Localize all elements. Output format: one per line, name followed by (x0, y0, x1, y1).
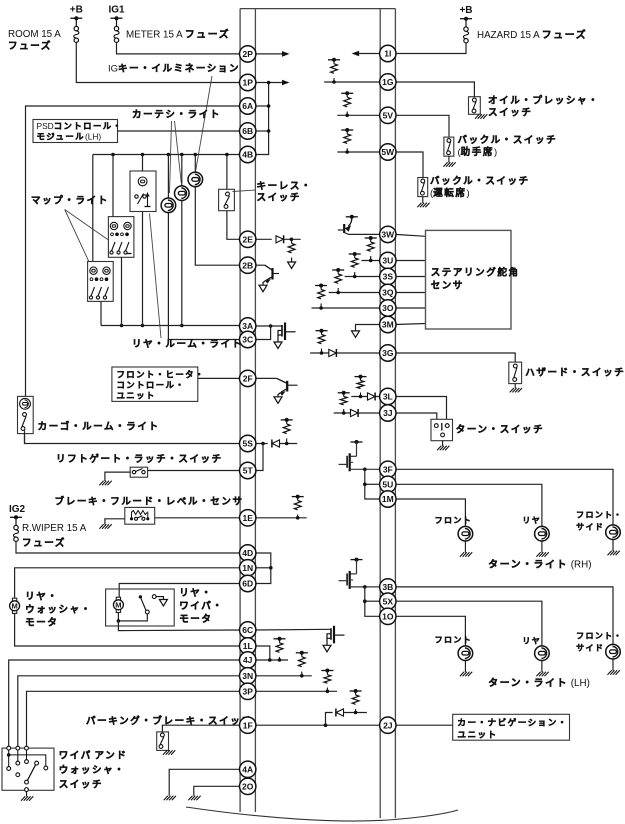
left connector bus C-1 (vertical rails) (240, 9, 255, 812)
svg-text:フロント・: フロント・ (576, 511, 623, 520)
wire: cargo light to pin 5S (24, 431, 26, 444)
turn lamp front RH (458, 526, 473, 541)
wire: pin 3U with resistor R11 (361, 260, 380, 262)
module box: PSD control module (LH) (33, 120, 118, 143)
svg-text:1F: 1F (243, 720, 253, 730)
wire+ground: front lamp RH (464, 541, 466, 553)
wire: washer motor to pin 1L (15, 613, 241, 646)
wire+ground: latch switch left leg (105, 472, 130, 481)
wire: heater unit to pin 2F (198, 377, 240, 379)
wire: pin 3M to page arrow (356, 325, 381, 331)
wire: stub 6A to feed column (255, 105, 268, 107)
wire: pin 1M to front turn lamp RH (395, 499, 465, 526)
leader: rear room light to dome light box (150, 214, 162, 339)
resistor R8 pull-up (331, 64, 338, 73)
svg-text:サイド: サイド (576, 644, 604, 653)
leader: map light to box A (65, 210, 89, 262)
wire: pin 5V to buckle switch (passenger) (395, 115, 449, 137)
svg-text:フューズ: フューズ (8, 40, 52, 52)
svg-text:5U: 5U (382, 480, 393, 490)
resistor R5 pull-up (298, 657, 305, 667)
svg-text:ワイパ・: ワイパ・ (179, 600, 223, 612)
dome light box with switch (130, 171, 156, 212)
svg-text:スイッチ: スイッチ (488, 108, 532, 119)
turn lamp front side LH (606, 644, 621, 659)
module box: steering angle sensor (426, 230, 512, 329)
leader: map light to box B (65, 210, 109, 241)
svg-text:R.WIPER 15 A: R.WIPER 15 A (22, 523, 87, 534)
svg-text:リヤ・: リヤ・ (25, 592, 58, 603)
wire: pin 1I output arrow (359, 53, 380, 55)
transistor Q1 at pin 2B (255, 264, 265, 266)
svg-text:+B: +B (70, 5, 83, 16)
svg-text:4J: 4J (243, 655, 253, 665)
svg-text:モジュール(LH): モジュール(LH) (37, 132, 102, 142)
wire: pin 1P output with arrow (255, 82, 282, 84)
svg-text:6A: 6A (242, 101, 253, 111)
wire: 5U/1M tie to 3F (365, 469, 380, 499)
svg-text:オイル・プレッシャ・: オイル・プレッシャ・ (488, 95, 599, 107)
wire: pin 3S with resistor R12 (345, 276, 381, 278)
wire: pin 3M to steering sensor (395, 324, 425, 325)
wire: 5X/1O tie to 3B (365, 587, 380, 616)
wire: lamp L3 to pin 2B (195, 186, 240, 265)
svg-text:HAZARD 15 A フューズ: HAZARD 15 A フューズ (477, 28, 587, 41)
wire: 4D/1N/6D tie bracket (255, 553, 270, 584)
svg-text:6C: 6C (242, 625, 253, 635)
svg-text:1N: 1N (242, 563, 253, 573)
MOSFET Q2 (278, 323, 296, 343)
svg-text:3Q: 3Q (382, 288, 394, 298)
svg-text:ハザード・スイッチ: ハザード・スイッチ (525, 368, 625, 379)
svg-text:ウォッシャ・: ウォッシャ・ (25, 605, 92, 616)
wire: pin 3S to steering sensor (395, 276, 425, 278)
turn lamp rear LH (535, 646, 550, 661)
transistor Q5 at pin 3W (346, 215, 358, 219)
svg-text:2P: 2P (242, 49, 253, 59)
svg-text:2O: 2O (242, 782, 254, 792)
wire: 5T tie to 5S junction (255, 444, 263, 471)
module box: car navigation unit (453, 714, 570, 740)
wire+ground: rear lamp RH (541, 541, 543, 553)
wire: lamp L1 to pin 3C (168, 212, 240, 339)
svg-text:ターン・ライト (LH): ターン・ライト (LH) (488, 677, 590, 689)
wire: HAZARD fuse to pin 1I (395, 43, 466, 54)
wire: 1L tie to 4J (255, 646, 269, 660)
svg-text:リヤ・: リヤ・ (179, 588, 212, 599)
diode D1 (276, 235, 284, 243)
leader: keyless switch label to switch (233, 190, 256, 192)
svg-text:ターン・ライト (RH): ターン・ライト (RH) (488, 559, 591, 571)
wire: pin 5W to buckle switch (driver) (395, 152, 423, 178)
svg-text:3U: 3U (382, 256, 393, 266)
svg-text:フロント・: フロント・ (576, 632, 623, 641)
wire: pin 1G left with resistor R8 (324, 81, 380, 83)
resistor R15 pull-up (318, 335, 325, 344)
svg-text:M: M (115, 600, 121, 609)
wire: pin 1O to front turn lamp LH (395, 616, 465, 646)
parking brake switch (162, 725, 240, 732)
transistor Q3 at pin 2F (255, 377, 276, 379)
diode D2 at 5S (272, 440, 280, 448)
wire+ground: pin 2O to ground (194, 786, 240, 796)
wire: pin 6A to cargo room light (26, 106, 241, 397)
svg-text:1O: 1O (382, 612, 394, 622)
wire+ground: buckle switch passenger ground (448, 156, 450, 162)
svg-text:3C: 3C (242, 335, 253, 345)
svg-text:5X: 5X (383, 596, 394, 606)
courtesy lamp L3 (194, 155, 196, 173)
svg-text:リヤ・ルーム・ライト: リヤ・ルーム・ライト (132, 339, 243, 350)
wire: latch switch to pin 5T (148, 470, 241, 472)
wire+ground: buckle switch driver ground (422, 197, 424, 203)
resistor R16 pull-up (357, 381, 364, 389)
svg-text:3J: 3J (383, 408, 393, 418)
svg-text:2B: 2B (242, 260, 253, 270)
svg-text:3S: 3S (383, 272, 394, 282)
wire: pin 1E right junction (255, 517, 306, 519)
wiper motor park switch (117, 619, 121, 623)
cargo room light with switch (18, 396, 34, 433)
wire: pin 3O with resistor R14 (312, 307, 381, 309)
svg-text:ウォッシャ・: ウォッシャ・ (59, 765, 126, 776)
page break curve (186, 807, 458, 821)
svg-text:ターン・スイッチ: ターン・スイッチ (456, 424, 545, 436)
wire: sensor to pin 1E (155, 517, 240, 519)
wire: pin 3A to MOSFET Q2 (255, 325, 282, 327)
power +B terminal (70, 16, 82, 20)
svg-text:ユニット: ユニット (117, 391, 156, 401)
rear wiper motor box (106, 589, 175, 626)
turn lamp front LH (458, 646, 473, 661)
svg-text:フューズ: フューズ (22, 537, 66, 549)
svg-text:1L: 1L (243, 641, 253, 651)
resistor R3 pull-up at 1E (294, 501, 301, 510)
wire+ground: front side lamp RH (612, 540, 614, 552)
fuse F3 R.WIPER 15A (15, 517, 17, 525)
wire: pin 3U to steering sensor (395, 260, 425, 262)
wire: ROOM fuse to pin 1P (76, 42, 240, 82)
wire: pin 3F to front side turn lamp RH (395, 469, 613, 524)
svg-text:5V: 5V (383, 111, 394, 121)
wire: pin 5V left with resistor R9 (337, 114, 380, 116)
wire: pin 5X to rear turn lamp LH (395, 601, 542, 646)
turn switch (431, 419, 453, 440)
wire: 3A collector rail to pin 3A (101, 325, 240, 327)
wire+ground: turn switch ground (442, 441, 444, 446)
leader: IG key illumination to courtesy lamp (196, 76, 212, 170)
wire: 4B distribution rail (93, 154, 240, 156)
fuse F4 HAZARD 15A (465, 19, 467, 27)
svg-text:モータ: モータ (179, 613, 212, 625)
svg-text:1M: 1M (382, 494, 394, 504)
wire: 3C tie to 3A (255, 326, 270, 340)
MOSFET Q6 at pin 3F (351, 440, 363, 444)
wire: map light box B to 3A rail (121, 257, 123, 325)
wire: drop to map light box B (112, 155, 114, 217)
keyless switch SW1 (226, 155, 228, 190)
wire: drop to dome light box (142, 155, 144, 172)
wire+ground: rear lamp LH (541, 661, 543, 673)
wire: D1 to resistor R1 junction (284, 238, 301, 240)
right connector bus C-2 (vertical rails) (380, 9, 395, 818)
wire: D2 to resistor R2 (279, 443, 297, 445)
svg-text:カー・ナビゲーション・: カー・ナビゲーション・ (457, 716, 567, 727)
svg-text:2F: 2F (243, 374, 253, 384)
wire: PSD module to pin 6B (118, 130, 241, 132)
rear washer motor M1 (10, 598, 20, 613)
wire: pin 3P to wiper washer switch (27, 691, 241, 748)
svg-text:ROOM 15 A: ROOM 15 A (8, 29, 61, 40)
wire: pin 6C to MOSFET Q4 (255, 628, 331, 631)
resistor R17 pull-up (340, 397, 347, 405)
courtesy lamp L1 (167, 155, 169, 199)
rear wiper motor M2 (113, 597, 123, 612)
svg-text:3A: 3A (242, 321, 253, 331)
connector pins left bus (240, 46, 256, 795)
brake fluid level sensor (125, 507, 155, 524)
courtesy lamp L2 (181, 155, 183, 187)
svg-text:4B: 4B (242, 150, 253, 160)
MOSFET Q7 at pin 3B (351, 558, 363, 562)
svg-text:+B: +B (459, 5, 472, 16)
svg-text:IG1: IG1 (108, 5, 125, 16)
wiper and washer switch box (2, 748, 54, 790)
wire: wiper motor to pin 6C (118, 612, 240, 630)
connector pins right bus (380, 45, 396, 733)
svg-text:4A: 4A (242, 765, 253, 775)
svg-text:リヤ: リヤ (522, 516, 541, 525)
svg-text:5T: 5T (243, 466, 254, 476)
svg-text:3B: 3B (382, 582, 393, 592)
svg-text:サイド: サイド (576, 523, 604, 532)
lift gate latch switch (130, 467, 147, 477)
wire: pin 3P to resistor R6 (255, 690, 337, 692)
wire: dome light box to 3A rail (142, 212, 144, 326)
wire: pin 3B to front side turn lamp LH (395, 587, 613, 644)
wire: pin 4J to wiper washer switch (9, 660, 240, 748)
svg-text:PSDコントロール・: PSDコントロール・ (37, 121, 123, 131)
svg-text:2E: 2E (242, 235, 253, 245)
wire+ground: wiper switch to ground (26, 792, 28, 797)
power IG1 terminal (111, 16, 123, 20)
module box: front heater control unit (112, 367, 198, 401)
hazard switch (509, 362, 522, 384)
svg-text:バックル・スイッチ: バックル・スイッチ (458, 134, 558, 146)
svg-text:5S: 5S (242, 439, 253, 449)
svg-text:キーレス・: キーレス・ (257, 181, 313, 192)
svg-text:3M: 3M (382, 320, 394, 330)
svg-text:3W: 3W (381, 230, 395, 240)
buckle switch (passenger) (444, 137, 454, 156)
wire: pin 3W to steering sensor (395, 234, 425, 236)
wire: pin 3N to wiper washer switch (18, 676, 240, 748)
wire: 1P feed column to 6A 6B 4B (255, 83, 268, 155)
wire: pin 5S junction (255, 443, 267, 445)
wire: pin 2P output with arrow (255, 53, 282, 55)
turn lamp rear RH (535, 526, 550, 541)
svg-text:3P: 3P (242, 687, 253, 697)
wire: METER fuse to pin 2P (117, 42, 241, 54)
svg-text:2J: 2J (383, 720, 393, 730)
map light box B (108, 217, 133, 258)
turn lamp front side RH (606, 525, 621, 540)
wire: pin 5U to rear turn lamp RH (395, 484, 542, 526)
wire+ground: sensor left leg (105, 519, 125, 525)
svg-text:3N: 3N (242, 671, 253, 681)
wire: pin 1G to oil pressure switch (395, 82, 474, 97)
svg-text:3G: 3G (382, 348, 394, 358)
wire: pin 3G left with diode D4 and resistor R15 (310, 352, 380, 354)
wire: stub 6B to feed column (255, 130, 268, 132)
svg-text:フロント: フロント (435, 516, 472, 525)
wire: pin 3Q to steering sensor (395, 292, 425, 294)
wire: pin 3N to resistor R5 (255, 675, 311, 677)
resistor R6 pull-up (324, 675, 331, 684)
wire: pin 6D to rear wiper motor (119, 584, 240, 598)
buckle switch (driver) (418, 178, 428, 197)
resistor R4 pull-up (276, 643, 283, 652)
resistor R7 pull-up at D3 (352, 695, 359, 704)
fuse F1 ROOM 15A (75, 18, 77, 26)
svg-text:6B: 6B (242, 126, 253, 136)
wire+ground: hazard switch ground (514, 384, 516, 389)
svg-text:ユニット: ユニット (457, 729, 497, 739)
resistor R10 pull-up (344, 134, 351, 143)
wire: drop to map light box A (92, 155, 94, 262)
svg-text:フロント: フロント (435, 636, 472, 645)
wire: pin 3L left with diode D5 and resistor R16 (351, 396, 380, 398)
wire+ground: pin 4A to ground (169, 769, 240, 796)
svg-text:4D: 4D (242, 548, 253, 558)
map light box A (88, 262, 114, 302)
MOSFET Q4 (327, 626, 345, 646)
svg-text:5W: 5W (381, 147, 395, 157)
svg-text:バックル・スイッチ: バックル・スイッチ (430, 175, 530, 187)
resistor R2 pull-up (283, 424, 290, 434)
wire+ground: front lamp LH (464, 661, 466, 673)
wire: pin 1F to pin 2J and nav unit (255, 724, 380, 726)
svg-text:M: M (11, 601, 17, 610)
svg-text:リヤ: リヤ (522, 637, 541, 646)
wire: pin 3Q with resistor R13 (329, 292, 381, 294)
svg-text:1G: 1G (382, 77, 394, 87)
wire: pin 3G to hazard switch (395, 353, 515, 362)
svg-text:コントロール・: コントロール・ (117, 380, 186, 390)
svg-text:1I: 1I (384, 49, 391, 59)
wire+ground: front side lamp LH (612, 659, 614, 671)
wire: pin 1N to rear washer motor (15, 568, 241, 598)
power +B terminal (hazard) (460, 17, 472, 21)
oil pressure switch (469, 97, 481, 115)
svg-text:リフトゲート・ラッチ・スイッチ: リフトゲート・ラッチ・スイッチ (56, 453, 223, 465)
wire: keyless switch to pin 2E (227, 211, 240, 240)
svg-text:3F: 3F (383, 465, 393, 475)
svg-text:3O: 3O (382, 303, 394, 313)
svg-text:IGキー・イルミネーション: IGキー・イルミネーション (108, 64, 240, 75)
svg-text:モータ: モータ (25, 617, 58, 629)
resistor R9 pull-up (344, 97, 351, 106)
svg-text:スイッチ: スイッチ (59, 780, 103, 791)
svg-text:フロント・ヒータ・: フロント・ヒータ・ (117, 370, 205, 380)
wire: pin 2E to diode D1 (255, 238, 271, 240)
wire: pin 4J to resistor R4 (255, 659, 288, 661)
svg-text:マップ・ライト: マップ・ライト (31, 195, 109, 207)
leader: courtesy light to lamp L2 (175, 121, 182, 183)
wire: pin 3O to steering sensor (395, 307, 425, 309)
svg-text:6D: 6D (242, 579, 253, 589)
diode D3 branch at 1F (326, 713, 333, 726)
resistor R1 to page arrow (288, 244, 295, 253)
wire: lamp L2 to 3A rail (181, 200, 183, 325)
svg-text:ブレーキ・フルード・レベル・センサ: ブレーキ・フルード・レベル・センサ (55, 496, 244, 508)
wire: pin 3J to turn switch (395, 413, 436, 419)
wire: map light box A to 3A rail (100, 301, 102, 325)
svg-text:(運転席): (運転席) (430, 187, 470, 199)
svg-text:METER 15 A フューズ: METER 15 A フューズ (126, 28, 230, 41)
svg-text:(助手席): (助手席) (458, 146, 498, 158)
wire: top cap connecting both connector buses (240, 8, 395, 10)
leader: courtesy light to lamp L1 (170, 121, 172, 193)
svg-text:IG2: IG2 (9, 504, 26, 515)
svg-text:スイッチ: スイッチ (257, 193, 301, 204)
svg-text:1E: 1E (242, 513, 253, 523)
svg-text:カーゴ・ルーム・ライト: カーゴ・ルーム・ライト (38, 421, 160, 433)
svg-text:センサ: センサ (431, 281, 464, 292)
fuse F2 METER 15A (116, 18, 118, 26)
svg-text:3L: 3L (383, 392, 393, 402)
wire: pin 3L to turn switch (395, 397, 446, 420)
svg-text:ワイパ アンド: ワイパ アンド (59, 750, 128, 762)
wire: pin 5W left with resistor R10 (337, 151, 380, 153)
svg-text:1P: 1P (242, 78, 253, 88)
wire: R.WIPER fuse to pin 4D (16, 541, 240, 553)
svg-text:ステアリング舵角: ステアリング舵角 (431, 267, 520, 279)
svg-text:カーテシ・ライト: カーテシ・ライト (132, 110, 221, 121)
wire: pin 3J left with diode D6 and resistor R17 (334, 412, 381, 414)
